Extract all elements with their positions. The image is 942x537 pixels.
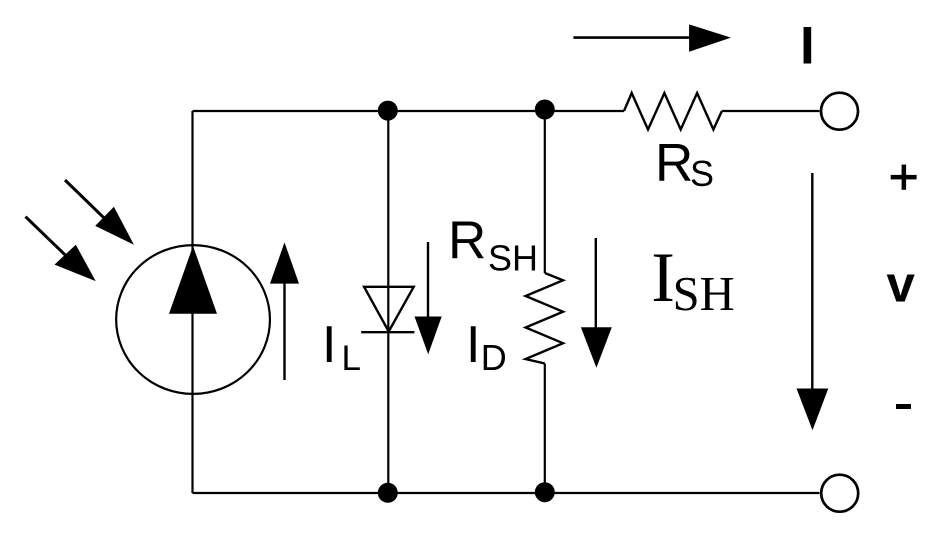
current source U1 circle — [116, 245, 270, 394]
wire shunt branch bottom — [544, 364, 546, 494]
wire left vertical — [191, 111, 193, 493]
arrow I current direction — [573, 24, 731, 51]
light arrow lower — [26, 217, 96, 281]
junction dot top right — [535, 100, 555, 120]
junction dot top left — [378, 101, 398, 121]
svg-text:R: R — [448, 211, 486, 270]
wire top horizontal — [193, 110, 625, 112]
wire bottom horizontal — [193, 492, 820, 494]
svg-text:L: L — [342, 339, 361, 378]
resistor RS — [624, 93, 722, 130]
label minus — [896, 404, 911, 409]
svg-text:I: I — [466, 316, 480, 374]
terminal top — [821, 93, 858, 130]
resistor RSH — [526, 273, 563, 364]
svg-text:I: I — [800, 16, 815, 75]
svg-text:S: S — [690, 153, 714, 194]
junction dot bottom right — [535, 482, 555, 502]
light arrow upper — [65, 180, 134, 245]
wire resistor to terminal — [722, 110, 820, 112]
svg-text:R: R — [655, 133, 693, 192]
terminal bottom — [821, 475, 858, 512]
arrow ISH — [581, 238, 612, 368]
arrow ID — [415, 242, 442, 354]
current source arrow — [169, 246, 217, 314]
arrow V — [797, 173, 829, 430]
svg-text:D: D — [481, 337, 507, 378]
svg-text:I: I — [651, 239, 675, 317]
junction dot bottom left — [378, 483, 398, 503]
arrow IL — [270, 242, 299, 380]
svg-text:SH: SH — [673, 268, 735, 321]
svg-text:I: I — [322, 316, 336, 374]
diode D1 — [361, 287, 414, 332]
svg-text:SH: SH — [488, 238, 538, 279]
svg-text:v: v — [887, 256, 916, 313]
wire shunt branch top — [544, 111, 546, 273]
wire diode branch vertical — [387, 111, 389, 493]
label plus — [891, 165, 917, 190]
